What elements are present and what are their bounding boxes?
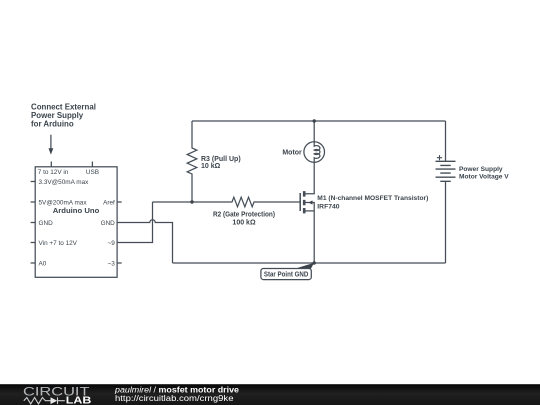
svg-text:R2 (Gate Protection): R2 (Gate Protection): [213, 212, 275, 219]
svg-text:3.3V@50mA max: 3.3V@50mA max: [39, 179, 90, 186]
svg-text:Aref: Aref: [103, 199, 115, 206]
svg-text:Power Supply: Power Supply: [459, 166, 503, 173]
svg-text:for Arduino: for Arduino: [31, 120, 74, 129]
svg-text:GND: GND: [39, 220, 54, 227]
svg-text:IRF740: IRF740: [317, 203, 340, 210]
svg-text:M1 (N-channel MOSFET Transisto: M1 (N-channel MOSFET Transistor): [317, 195, 428, 202]
svg-text:Star Point GND: Star Point GND: [264, 271, 309, 278]
svg-text:100 kΩ: 100 kΩ: [232, 219, 256, 226]
svg-text:Motor: Motor: [282, 149, 302, 156]
svg-text:7 to 12V in: 7 to 12V in: [38, 169, 69, 176]
svg-text:Vin +7 to 12V: Vin +7 to 12V: [39, 240, 78, 247]
svg-text:R3 (Pull Up): R3 (Pull Up): [201, 156, 241, 163]
svg-text:Arduino Uno: Arduino Uno: [53, 206, 100, 215]
svg-text:GND: GND: [101, 220, 116, 227]
svg-text:~3: ~3: [108, 260, 116, 267]
svg-text:Motor Voltage V: Motor Voltage V: [459, 174, 509, 181]
svg-text:LAB: LAB: [66, 396, 92, 405]
svg-text:http://circuitlab.com/crng9ke: http://circuitlab.com/crng9ke: [115, 393, 234, 403]
svg-text:~9: ~9: [108, 240, 116, 247]
svg-text:USB: USB: [86, 169, 99, 176]
svg-text:A0: A0: [39, 260, 47, 267]
svg-text:10 kΩ: 10 kΩ: [201, 163, 221, 170]
